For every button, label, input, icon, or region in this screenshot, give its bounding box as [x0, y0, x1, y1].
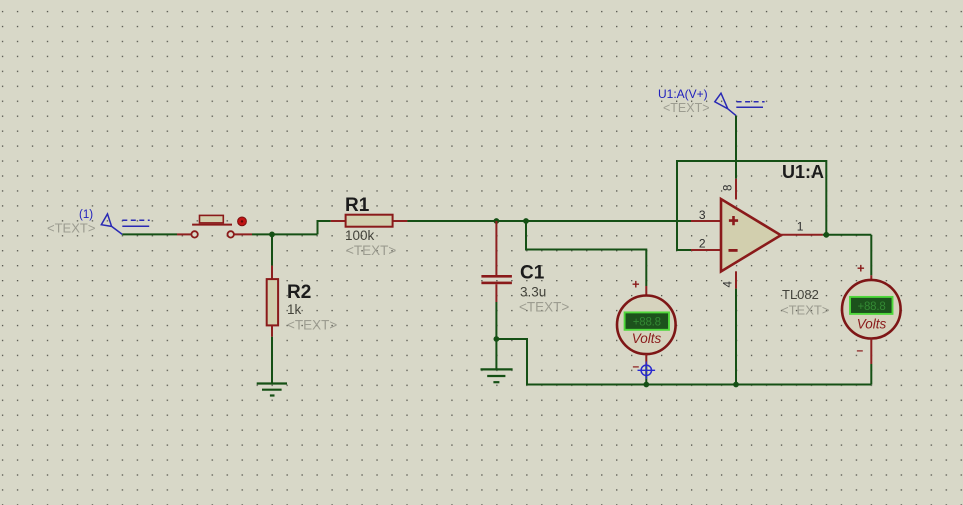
- wire VM1 minus to bottom bus: [645, 354, 647, 384]
- svg-text:<TEXT>: <TEXT>: [346, 243, 396, 258]
- resistor R2: [267, 279, 338, 332]
- svg-text:TL082: TL082: [782, 287, 819, 302]
- svg-text:<TEXT>: <TEXT>: [519, 300, 569, 315]
- op-amp U1:A: [691, 162, 829, 318]
- wire node D to bottom bus: [496, 339, 871, 385]
- voltmeter VM2: [842, 261, 901, 358]
- power terminal U1:A(V+): [658, 87, 765, 116]
- node G junction (bus / pin4): [733, 382, 739, 388]
- wire terminal to switch: [122, 233, 191, 235]
- wire node D to ground: [495, 339, 497, 369]
- wire V+ terminal to pin 8: [735, 116, 737, 200]
- svg-text:<TEXT>: <TEXT>: [781, 303, 829, 318]
- svg-text:(1): (1): [79, 209, 93, 221]
- svg-text:+88.8: +88.8: [857, 301, 885, 313]
- wire C1 down to node D: [495, 284, 497, 339]
- svg-text:+: +: [632, 277, 640, 292]
- capacitor C1: [481, 263, 569, 315]
- node D junction: [494, 336, 500, 342]
- node A junction: [269, 232, 275, 238]
- node E junction (output): [823, 232, 829, 238]
- svg-text:<TEXT>: <TEXT>: [47, 221, 95, 236]
- wire switch to node A: [235, 233, 318, 235]
- wire node A down to R2: [271, 234, 273, 279]
- svg-text:+: +: [857, 261, 865, 276]
- wire node C to voltmeter VM1 plus: [526, 221, 646, 296]
- svg-text:Volts: Volts: [632, 331, 662, 346]
- origin marker at VM1 minus: [638, 362, 656, 380]
- svg-text:1: 1: [797, 220, 804, 234]
- input terminal (1): [47, 209, 150, 236]
- svg-text:+88.8: +88.8: [633, 316, 661, 328]
- wire node A up to R1: [318, 221, 331, 234]
- wire output to voltmeter VM2 plus: [870, 235, 872, 283]
- svg-text:U1:A(V+): U1:A(V+): [658, 87, 708, 101]
- output pin 1 wire: [781, 234, 872, 236]
- svg-text:1k: 1k: [287, 302, 302, 317]
- svg-text:U1:A: U1:A: [782, 162, 824, 182]
- ground under R2: [257, 384, 287, 396]
- svg-text:R1: R1: [345, 195, 370, 216]
- voltmeter VM1: [617, 277, 676, 374]
- switch SW1 (push button): [191, 215, 233, 237]
- svg-text:8: 8: [723, 185, 735, 191]
- svg-text:3: 3: [699, 208, 706, 222]
- feedback wire output to pin 2: [677, 161, 826, 250]
- switch actuator red dot: [238, 217, 247, 226]
- wire VM2 minus to bottom bus: [870, 339, 872, 385]
- svg-text:<TEXT>: <TEXT>: [287, 318, 337, 333]
- svg-text:100k: 100k: [345, 228, 375, 243]
- resistor R1: [331, 195, 408, 258]
- svg-text:2: 2: [699, 237, 706, 251]
- node B junction (C1 tap): [494, 218, 500, 224]
- svg-text:C1: C1: [520, 263, 545, 284]
- svg-text:R2: R2: [287, 282, 311, 303]
- svg-text:3.3u: 3.3u: [520, 285, 546, 300]
- node F junction (bus / VM1): [643, 382, 649, 388]
- svg-text:<TEXT>: <TEXT>: [663, 101, 710, 115]
- svg-text:Volts: Volts: [857, 316, 887, 331]
- wire node B down to C1: [495, 221, 497, 275]
- wire pin 4 to bottom bus: [735, 271, 737, 384]
- node C junction (meter tap): [523, 218, 529, 224]
- ground under C1: [481, 369, 513, 382]
- svg-text:4: 4: [723, 281, 735, 288]
- wire R2 to ground: [271, 325, 273, 383]
- svg-text:–: –: [857, 343, 864, 357]
- wire R1 to op-amp pin 3: [407, 220, 691, 222]
